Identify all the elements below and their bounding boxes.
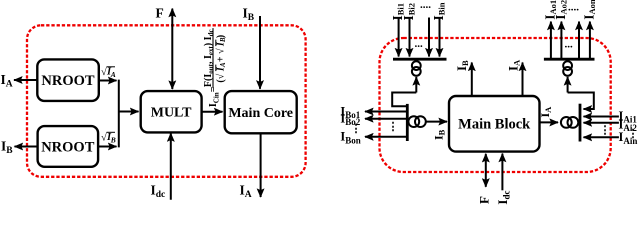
svg-text:IA: IA [240, 183, 252, 201]
wire I_dc into Main Block bottom [501, 154, 503, 191]
svg-text:Main Core: Main Core [228, 106, 293, 121]
label I_Ain [619, 130, 638, 146]
current mirror symbol (top-left, two circles) [412, 59, 421, 76]
wire zigzag mirror to Ai bar [568, 93, 594, 110]
label I_B (top) [243, 6, 255, 24]
svg-text:...: ... [415, 38, 424, 50]
svg-text:IA: IA [1, 72, 13, 90]
svg-text:IB: IB [454, 60, 470, 71]
wire zigzag mirror to Bo bar [392, 93, 416, 107]
label I_dc (rotated, bottom) [495, 191, 512, 205]
label I_B (rotated, top of Main Block) [454, 60, 470, 71]
svg-text:F(Iout, Iext) Idc: F(Iout, Iext) Idc [203, 29, 215, 87]
wire output I_B (left, from bottom NROOT) [15, 146, 38, 148]
svg-text:...: ... [565, 39, 574, 51]
label I_Bin (rotated) [431, 2, 446, 20]
wire I_dc into MULT bottom [170, 133, 172, 200]
wire F (double arrow into MULT top) [171, 9, 173, 89]
svg-text:F: F [156, 6, 164, 21]
label I_Bi2 (rotated) [401, 3, 416, 21]
wire sqrt(I_B) from NROOT bottom to junction [98, 146, 116, 148]
wire arrow up into mirror (top-left) [415, 77, 417, 93]
svg-text:MULT: MULT [151, 106, 192, 121]
label I_Bi1 (rotated) [390, 3, 405, 21]
block Main Block [449, 96, 540, 152]
wire I_Ao1 output arrow [550, 22, 552, 60]
wire I_Bi2 input arrow [409, 18, 411, 57]
block MULT [141, 91, 202, 132]
wire junction to MULT input [119, 111, 139, 113]
wire I_A up from Main Block top [522, 63, 524, 97]
label dots (Bi label row) [420, 0, 431, 11]
label F (rotated, bottom) [477, 196, 492, 204]
label dots (Ao arrows) [565, 39, 574, 51]
label formula I_Cin = F(I_out, I_ext) I_dc / (sqrt(I_A)+sqrt(I_B)) (rotated) [203, 28, 227, 107]
current mirror symbol (left, two circles horizontal) [408, 116, 425, 127]
svg-text:IAon: IAon [582, 0, 597, 20]
node bus bar (top-left mirror) [393, 58, 447, 61]
label I_Ai1 [619, 109, 638, 125]
label I_A (left) [1, 72, 13, 90]
wire I_Ai2 input arrow [584, 122, 619, 124]
label dots (Bi arrows) [415, 38, 424, 50]
label sqrt(I_B) [101, 132, 116, 145]
label I_Ao2 (rotated) [553, 0, 568, 20]
wire I_B into Main Block left [426, 121, 447, 123]
label I_dc (bottom) [151, 183, 166, 201]
svg-text:Idc: Idc [151, 183, 166, 201]
wire I_Aon output arrow [589, 22, 591, 60]
wire sqrt(I_A) from NROOT top to junction [99, 80, 117, 82]
svg-text:⋮: ⋮ [600, 125, 611, 137]
wire I_A out of Main Core bottom [260, 133, 262, 197]
label I_Bon [340, 130, 360, 146]
label I_Ao1 (rotated) [543, 0, 558, 20]
label I_Aon (rotated) [582, 0, 597, 20]
label I_A (bottom) [240, 183, 252, 201]
label dots (Bo arrows) [388, 121, 399, 133]
svg-text:(√: (√ [216, 73, 227, 82]
label dots (Ao label row) [568, 2, 579, 14]
label sqrt(I_A) [101, 66, 116, 79]
wire I_Bon output arrow [365, 136, 407, 138]
wire I_A out of Main Block right [540, 121, 559, 123]
node bar (right Ai inputs) [579, 104, 582, 142]
svg-text:B: B [110, 136, 116, 145]
svg-text:): ) [216, 35, 227, 38]
wire output I_A (left, from top NROOT) [14, 79, 37, 81]
block NROOT (top) [37, 59, 99, 101]
label I_Ai2 [619, 118, 638, 134]
label I_Bo2 [340, 112, 360, 128]
current mirror symbol (right, two circles horizontal) [561, 117, 578, 128]
wire F double arrow (Main Block bottom) [485, 154, 487, 187]
svg-text:IB: IB [243, 6, 255, 24]
label dots (Ai arrows) [600, 125, 611, 137]
svg-text:Idc: Idc [495, 191, 512, 205]
label I_Bo1 [340, 104, 360, 120]
label I_A (rotated, top of Main Block) [506, 59, 522, 71]
current mirror symbol (top-right, two circles) [563, 59, 572, 76]
block Main Core [225, 91, 297, 133]
wire I_Bi1 input arrow [398, 18, 400, 57]
label F (top) [156, 6, 164, 21]
svg-text:⋮: ⋮ [351, 123, 362, 135]
block NROOT (bottom) [38, 126, 99, 167]
svg-text:⋮: ⋮ [388, 121, 399, 133]
svg-text:⋮: ⋮ [628, 128, 639, 140]
svg-text:F: F [477, 196, 492, 204]
dashed boundary box (left system) [27, 25, 306, 177]
wire I_Bin input arrow [439, 18, 441, 57]
svg-text:+ √: + √ [216, 48, 227, 62]
wire junction vertical (sqrt outputs join) [118, 80, 120, 148]
svg-text:....: .... [420, 0, 431, 11]
svg-text:IA: IA [506, 59, 522, 71]
wire I_B up from Main Block top [471, 63, 473, 97]
wire I_Bo2 output arrow [365, 118, 407, 120]
svg-text:IB: IB [432, 129, 447, 140]
svg-text:Main Block: Main Block [458, 117, 531, 133]
wire I_Bo1 output arrow [365, 111, 407, 113]
label I_B (left) [1, 139, 13, 157]
node bar (left Bo outputs) [406, 104, 409, 141]
label I_B (rotated, at Main Block left input) [432, 129, 447, 140]
wire arrow up into mirror (top-right) [567, 77, 569, 93]
wire I_Bi(n-1) input arrow [428, 18, 430, 57]
svg-text:IBin: IBin [431, 2, 446, 20]
wire I_Ao(n-1) output arrow [578, 22, 580, 60]
svg-text:A: A [110, 70, 116, 79]
wire I_Ai1 input arrow [584, 116, 619, 118]
svg-text:NROOT: NROOT [41, 73, 95, 89]
wire MULT to Main Core (I_Cin) [202, 111, 223, 113]
svg-text:ICin=: ICin= [208, 86, 220, 107]
label dots (Ai labels) [628, 128, 639, 140]
dashed boundary box (right system) [380, 38, 611, 172]
label I_A (rotated, right output) [538, 106, 553, 118]
wire I_Ao2 output arrow [560, 22, 562, 60]
node bus bar (top-right mirror) [544, 58, 595, 61]
svg-text:....: .... [568, 2, 579, 14]
label dots (Bo labels) [351, 123, 362, 135]
wire I_Ain input arrow [584, 136, 619, 138]
svg-text:NROOT: NROOT [41, 140, 95, 156]
wire I_B into Main Core top [259, 16, 261, 89]
svg-text:IB: IB [1, 139, 13, 157]
